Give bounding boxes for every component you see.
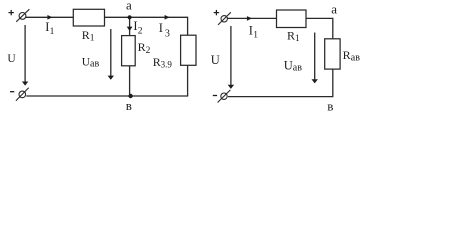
- svg-text:в: в: [126, 98, 132, 113]
- svg-text:а: а: [331, 2, 337, 17]
- svg-text:R: R: [138, 40, 146, 54]
- svg-text:1: 1: [90, 34, 95, 44]
- svg-text:3: 3: [165, 28, 170, 39]
- svg-text:1: 1: [50, 27, 55, 37]
- svg-text:U: U: [211, 53, 220, 67]
- svg-text:1: 1: [295, 34, 300, 44]
- svg-text:а: а: [126, 0, 132, 13]
- svg-text:3.9: 3.9: [161, 60, 173, 70]
- svg-text:ав: ав: [90, 58, 99, 69]
- svg-text:I: I: [159, 21, 163, 35]
- svg-text:ав: ав: [293, 62, 302, 73]
- svg-text:R: R: [343, 48, 351, 62]
- svg-text:U: U: [284, 59, 293, 73]
- svg-text:1: 1: [253, 31, 258, 41]
- svg-text:U: U: [7, 53, 16, 65]
- svg-text:в: в: [327, 98, 333, 113]
- svg-text:R: R: [82, 28, 90, 42]
- svg-text:2: 2: [146, 46, 151, 56]
- svg-text:2: 2: [138, 27, 143, 37]
- svg-text:ав: ав: [351, 52, 360, 63]
- svg-text:R: R: [287, 28, 295, 42]
